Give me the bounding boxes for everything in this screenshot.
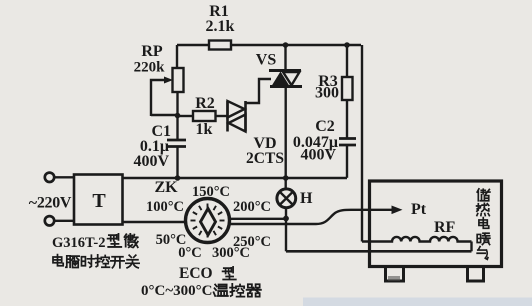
node top rail / VS [283,42,289,48]
label 250C [233,234,271,250]
label RF [434,219,456,236]
svg-text:220k: 220k [134,60,166,76]
resistor R3 [342,77,353,100]
wire VS anode from top rail [284,45,286,71]
label ~220V [29,195,72,212]
svg-text:ZK: ZK [154,179,178,196]
node top rail / R3 [344,42,350,48]
wire return line [286,250,472,253]
svg-text:200°C: 200°C [233,199,271,215]
svg-text:R2: R2 [195,95,215,112]
label H [300,190,313,207]
wire RP wiper arm [151,77,173,117]
wire C1 bottom [176,147,178,179]
label diannao shikong kaiguan [53,255,139,268]
svg-text:H: H [300,190,313,207]
svg-text:400V: 400V [133,153,169,170]
transformer box T [74,175,123,225]
svg-text:RP: RP [141,43,163,60]
potentiometer RP [173,68,184,92]
node lamp bottom [283,216,289,222]
label 200C [233,199,271,215]
wire right rail [361,45,363,242]
label 300C [212,245,250,261]
svg-text:T: T [92,190,106,212]
wire wiper to node [151,114,177,116]
diac VD [228,101,246,132]
wire R2 to VD [215,115,227,117]
label chureddiannuanqi vertical [477,189,490,259]
wire RP bottom to C1 [176,92,178,140]
wire dial to node [230,218,287,220]
wire node to R2 [177,115,193,117]
wire Pt probe curve [230,206,403,225]
svg-text:VS: VS [256,52,277,69]
svg-text:400V: 400V [300,147,336,164]
label 0C~300C wenkongqi [141,283,261,299]
svg-text:Pt: Pt [411,201,427,218]
svg-text:0°C~300°C: 0°C~300°C [141,283,212,299]
label Pt [411,201,427,218]
label ZK [154,179,178,196]
label 100C [146,199,184,215]
svg-text:0°C: 0°C [178,245,202,261]
node junction RP/R2/C1 [175,113,181,119]
triac VS [269,71,302,87]
label 50C [156,232,187,248]
terminal bottom [45,216,54,225]
label RP [134,43,166,76]
label ECO xing [179,265,236,282]
label VD [246,135,284,167]
label VS [256,52,277,69]
svg-text:100°C: 100°C [146,199,184,215]
label 0C [178,245,202,261]
wire node drop to return [285,219,287,252]
heater foot right [468,267,484,281]
svg-text:C2: C2 [315,118,335,135]
svg-text:RF: RF [434,219,456,236]
wire middle rail ZK [122,177,347,179]
svg-text:300°C: 300°C [212,245,250,261]
wire terminal bottom to box [54,220,74,222]
resistor R1 [209,41,231,50]
label R3 [315,73,339,102]
wire R3 branch [346,45,348,77]
heating element RF [362,237,472,242]
wire element end [470,242,472,252]
thermostat dial ECO [186,199,230,243]
wire R3 to C2 [346,100,348,138]
wire terminal top to box [54,176,74,178]
lamp H [277,189,296,208]
wire lamp bottom [285,208,287,219]
label G316T-2 xing wei [52,234,138,251]
label R2 [195,95,215,138]
wire VD gate to VS gate [246,79,272,103]
node ZK [175,175,181,181]
svg-text:2.1k: 2.1k [206,18,235,35]
wire left drop to RP [176,45,178,68]
storage heater enclosure [370,181,502,267]
capacitor C2 [339,139,356,146]
svg-text:G316T-2: G316T-2 [52,235,105,251]
label 150C [192,184,230,200]
label C2 [293,118,338,164]
svg-text:300: 300 [315,85,339,102]
wire top rail [177,44,361,46]
wire box to dial [122,221,186,223]
terminal top [45,173,54,182]
svg-text:1k: 1k [196,121,213,138]
svg-text:ECO: ECO [179,265,213,282]
label C1 [133,123,171,170]
node lamp top [283,175,289,181]
svg-text:~220V: ~220V [29,195,72,212]
capacitor C1 [167,140,186,147]
svg-text:150°C: 150°C [192,184,230,200]
resistor R2 [193,111,216,121]
wire VS cathode down [285,87,287,190]
heater foot left [386,267,404,281]
label R1 [206,3,235,35]
svg-text:2CTS: 2CTS [246,150,284,167]
wire C2 bottom corner [346,145,348,178]
watermark strip bottom right [303,298,532,306]
